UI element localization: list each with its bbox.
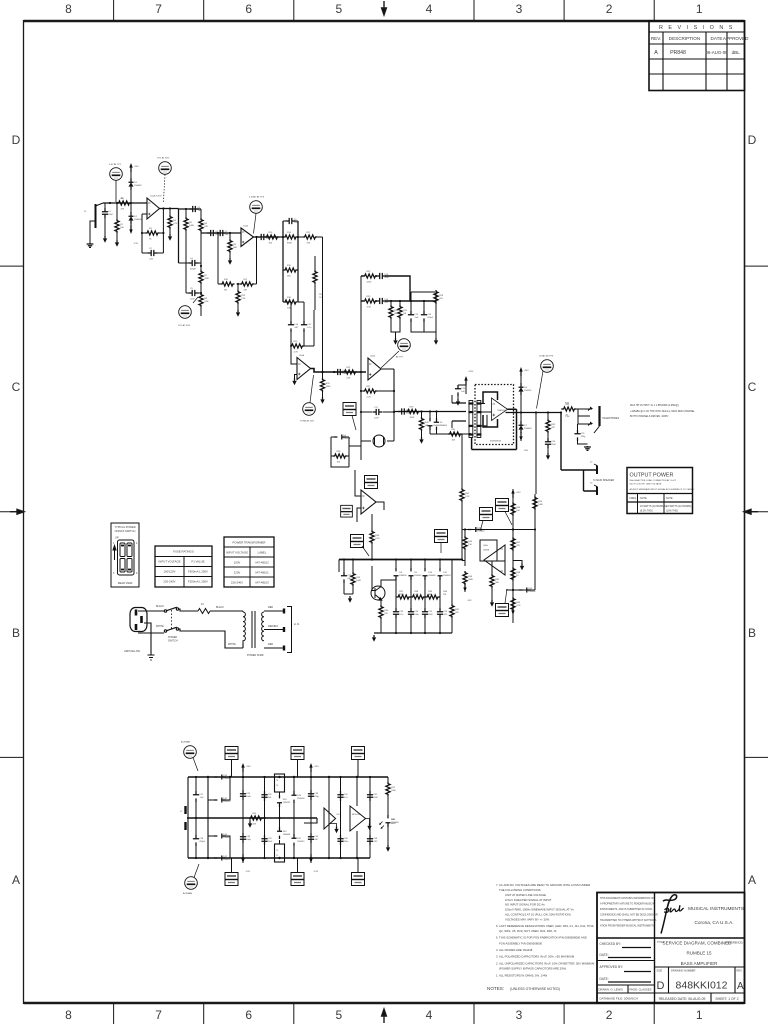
svg-text:120V: 120V xyxy=(234,571,241,575)
svg-text:A: A xyxy=(654,50,658,56)
feedback loop U1A wires xyxy=(142,209,163,254)
wire detector left xyxy=(462,560,465,562)
svg-text:3.3K: 3.3K xyxy=(367,306,372,308)
svg-text:U2-A: U2-A xyxy=(299,354,305,357)
PS labels row (regulator boxed labels) xyxy=(352,747,365,778)
svg-text:J3: J3 xyxy=(590,483,593,485)
cap rail C29 C30 xyxy=(340,777,342,858)
emitter resistor R37 xyxy=(379,600,383,634)
svg-text:15K: 15K xyxy=(269,242,273,244)
svg-text:J7: J7 xyxy=(180,811,183,813)
svg-text:22K: 22K xyxy=(204,226,208,228)
svg-text:C25: C25 xyxy=(428,611,433,613)
svg-text:4.7u: 4.7u xyxy=(399,614,404,616)
svg-text:ON/OFF SWITCH: ON/OFF SWITCH xyxy=(115,529,136,533)
tone stack right rail xyxy=(297,221,299,302)
+16V rail arrow xyxy=(241,763,244,772)
svg-text:330K: 330K xyxy=(468,579,473,581)
svg-text:TDA2030: TDA2030 xyxy=(497,409,506,412)
svg-text:R13: R13 xyxy=(269,232,274,234)
svg-text:(REFERENCE): (REFERENCE) xyxy=(725,941,743,945)
zone numbers top xyxy=(65,2,703,16)
resistor R20 to ground xyxy=(320,378,324,397)
svg-text:F1: F1 xyxy=(201,603,204,606)
svg-text:R26: R26 xyxy=(439,295,444,297)
svg-text:220-240V: 220-240V xyxy=(231,581,243,585)
svg-text:10K: 10K xyxy=(287,307,291,309)
svg-text:7. AC AND DC VOLTAGES ARE READ: 7. AC AND DC VOLTAGES ARE READ TO GROUND… xyxy=(496,883,590,887)
svg-text:R8: R8 xyxy=(204,298,208,300)
svg-text:To MAIN SPEAKER: To MAIN SPEAKER xyxy=(593,479,614,482)
svg-text:-15V: -15V xyxy=(134,243,139,245)
mid resistor divider R43 xyxy=(461,530,463,560)
resistor R48 xyxy=(511,537,515,551)
svg-text:3. ALL POLARIZED CAPACITORS IN: 3. ALL POLARIZED CAPACITORS IN uF, 20%, … xyxy=(496,955,575,959)
svg-text:D2: D2 xyxy=(134,216,138,218)
svg-text:R10: R10 xyxy=(224,279,229,281)
svg-text:MC/U2B: MC/U2B xyxy=(352,814,360,816)
svg-text:D20: D20 xyxy=(297,795,302,797)
supply arrow -15V xyxy=(463,583,466,592)
cap C22 xyxy=(193,818,199,858)
svg-text:LM358: LM358 xyxy=(483,550,490,552)
output wire U3A xyxy=(376,502,384,510)
transformer T1 xyxy=(243,611,284,648)
svg-text:R E V I S I O N S: R E V I S I O N S xyxy=(659,25,734,31)
svg-text:47K: 47K xyxy=(516,545,520,547)
svg-text:1N5242: 1N5242 xyxy=(223,801,231,803)
resistor R9 to ground xyxy=(228,233,232,258)
svg-text:D7: D7 xyxy=(524,425,528,427)
svg-text:J1: J1 xyxy=(84,211,87,213)
svg-text:1N4003: 1N4003 xyxy=(399,575,407,577)
label box +16V xyxy=(435,530,448,554)
feedback loop U1B wires xyxy=(218,233,257,284)
svg-text:1N5242: 1N5242 xyxy=(477,531,485,533)
resistor R1 series xyxy=(117,201,131,205)
test point TP6 xyxy=(537,360,554,409)
svg-text:APPROVED BY:: APPROVED BY: xyxy=(600,965,624,969)
wire neutral xyxy=(138,632,164,634)
svg-text:ATION FROM FENDER MUSICAL INST: ATION FROM FENDER MUSICAL INSTRUMENTS. xyxy=(600,925,655,928)
svg-text:1uF: 1uF xyxy=(225,234,229,236)
svg-text:R15: R15 xyxy=(287,265,292,267)
svg-text:2.2K: 2.2K xyxy=(367,396,372,398)
switch rocker drawing xyxy=(118,540,135,575)
resistor R36 xyxy=(344,560,355,595)
capacitor C7 series xyxy=(217,230,227,236)
svg-text:R5: R5 xyxy=(189,222,193,224)
slope resistor R18 xyxy=(313,256,317,310)
svg-text:R47: R47 xyxy=(516,542,521,544)
svg-text:SIZE: SIZE xyxy=(657,969,663,973)
svg-text:A: A xyxy=(748,873,756,887)
svg-text:10uF: 10uF xyxy=(374,417,379,419)
svg-text:15: 15 xyxy=(276,785,279,787)
cap rail C31 C32 xyxy=(369,777,371,858)
svg-text:1M: 1M xyxy=(403,313,406,315)
svg-text:A PROPRIETARY NATURE TO FENDER: A PROPRIETARY NATURE TO FENDER MUSICAL xyxy=(600,903,656,906)
resistor R32 xyxy=(448,432,462,436)
svg-text:220K: 220K xyxy=(204,278,209,280)
svg-text:330K: 330K xyxy=(410,417,415,419)
resistor R11 feedback xyxy=(240,282,254,286)
svg-text:CHECKED BY:: CHECKED BY: xyxy=(600,942,622,946)
svg-text:22K: 22K xyxy=(347,377,351,379)
svg-text:100K: 100K xyxy=(538,504,543,506)
svg-text:R36: R36 xyxy=(384,610,389,612)
svg-text:TRANSMITTED TO OTHERS WITHOUT: TRANSMITTED TO OTHERS WITHOUT AUTHORIZ- xyxy=(600,919,657,922)
zener ladder column 4 xyxy=(437,560,443,634)
svg-text:1N4003: 1N4003 xyxy=(443,575,451,577)
svg-text:68K: 68K xyxy=(428,594,432,596)
svg-text:R6: R6 xyxy=(204,223,208,225)
svg-text:ADJUST SINEWAVE INPUT SIGNAL A: ADJUST SINEWAVE INPUT SIGNAL AT 100MINIM… xyxy=(630,488,695,491)
buffer U8B large xyxy=(350,806,366,831)
svg-text:C31: C31 xyxy=(268,794,273,796)
svg-text:.022: .022 xyxy=(443,614,448,616)
zone tick marks top edge xyxy=(114,0,655,21)
resistor R4 to ground xyxy=(168,209,172,235)
svg-text:D: D xyxy=(748,133,757,147)
resistor R30 series xyxy=(406,409,420,413)
zone tick marks left edge xyxy=(0,266,24,757)
svg-text:RED: RED xyxy=(268,606,273,609)
clip diodes D4 D5 xyxy=(428,412,471,435)
svg-text:B: B xyxy=(12,626,20,640)
svg-text:VOL AT 50%: VOL AT 50% xyxy=(157,157,169,160)
title block frame xyxy=(597,893,745,1004)
resistor R5 xyxy=(184,209,188,263)
svg-text:BASS AMPLIFIER: BASS AMPLIFIER xyxy=(681,961,719,966)
bass pot R15 xyxy=(283,268,298,272)
svg-text:D: D xyxy=(12,133,21,147)
svg-text:R4: R4 xyxy=(173,220,177,222)
svg-text:R20: R20 xyxy=(326,383,331,385)
svg-text:R44: R44 xyxy=(468,576,473,578)
svg-text:D9: D9 xyxy=(414,572,418,574)
svg-text:8: 8 xyxy=(65,1008,72,1022)
volume pot R6 xyxy=(199,209,203,266)
resistor R51 xyxy=(533,496,537,510)
svg-text:R19: R19 xyxy=(294,341,299,343)
wire into U2A xyxy=(291,346,297,364)
svg-text:4.7K: 4.7K xyxy=(294,351,299,353)
ladder chain resistor R56 xyxy=(411,595,425,599)
amp output wire xyxy=(506,412,562,414)
main wire U2A out xyxy=(311,369,367,373)
resistor R2 input shunt xyxy=(115,203,119,240)
svg-text:15K: 15K xyxy=(337,461,341,463)
svg-text:C16: C16 xyxy=(427,314,432,316)
svg-text:6: 6 xyxy=(136,572,138,575)
svg-text:DATE:: DATE: xyxy=(600,977,609,981)
svg-text:SWITCH: SWITCH xyxy=(168,640,178,643)
svg-text:C36: C36 xyxy=(344,838,349,840)
zone numbers bottom xyxy=(65,1008,703,1022)
wire TP1 to input node xyxy=(115,181,117,203)
svg-text:10K: 10K xyxy=(452,439,456,441)
zone letters right xyxy=(748,133,757,887)
ground stub detector xyxy=(513,561,522,564)
detector top wire xyxy=(462,529,535,531)
svg-text:R21: R21 xyxy=(347,367,352,369)
svg-text:RUMBLE 15: RUMBLE 15 xyxy=(686,951,712,956)
svg-text:22K: 22K xyxy=(384,613,388,615)
svg-text:A: A xyxy=(737,981,744,992)
svg-text:R49: R49 xyxy=(516,602,521,604)
svg-text:3: 3 xyxy=(516,1008,523,1022)
centering arrow right xyxy=(744,509,758,514)
clamp diode D16 xyxy=(292,777,297,818)
svg-text:R28: R28 xyxy=(337,451,342,453)
svg-text:R46: R46 xyxy=(516,507,521,509)
svg-text:DRAWN: G. LEWIS: DRAWN: G. LEWIS xyxy=(599,988,624,992)
connector ref circle P3 xyxy=(184,746,198,771)
svg-text:C24: C24 xyxy=(414,611,419,613)
svg-text:U4-A: U4-A xyxy=(483,544,488,547)
svg-text:47nF: 47nF xyxy=(384,277,389,279)
svg-text:R3: R3 xyxy=(149,228,153,230)
svg-text:C10: C10 xyxy=(294,324,299,326)
bypass rail vertical xyxy=(242,771,244,863)
svg-text:4: 4 xyxy=(426,1008,433,1022)
svg-text:U2-B: U2-B xyxy=(370,356,376,358)
svg-text:4.7K: 4.7K xyxy=(516,605,521,607)
diode D7 xyxy=(519,421,524,433)
speaker feed down xyxy=(561,413,597,471)
svg-text:F1 VALUE: F1 VALUE xyxy=(191,560,204,564)
svg-text:1N4448: 1N4448 xyxy=(391,822,399,824)
svg-text:DATABASE FILE: 2060/SCH: DATABASE FILE: 2060/SCH xyxy=(600,997,638,1001)
svg-text:100mV RMS, 100Hz SINEWAVE INPU: 100mV RMS, 100Hz SINEWAVE INPUT SIGNAL A… xyxy=(505,908,574,912)
svg-text:R24: R24 xyxy=(394,310,399,312)
svg-text:+26V: +26V xyxy=(468,371,474,373)
label box bottom left PS xyxy=(225,858,238,886)
wire hot xyxy=(138,610,164,612)
svg-text:INSTRUMENTS, AND IS SUBMITTED: INSTRUMENTS, AND IS SUBMITTED IN CONFI- xyxy=(600,908,653,911)
svg-text:.022: .022 xyxy=(384,302,389,304)
pass transistor Q1 MPSA06 xyxy=(371,566,396,600)
svg-text:DATE:: DATE: xyxy=(600,953,609,957)
diode D13 bottom rail series xyxy=(214,856,226,861)
capacitor C1 xyxy=(102,203,108,236)
svg-text:100n: 100n xyxy=(344,841,349,843)
svg-text:.022: .022 xyxy=(373,841,378,843)
bias rail vertical xyxy=(371,514,373,530)
svg-text:1: 1 xyxy=(696,2,703,16)
threshold rail x513 xyxy=(512,489,514,623)
svg-text:1N5242: 1N5242 xyxy=(297,841,305,843)
svg-text:POWER TRANSFORMER: POWER TRANSFORMER xyxy=(233,541,266,545)
ground stub center xyxy=(249,818,251,821)
svg-text:7: 7 xyxy=(155,2,162,16)
ground stub U2A xyxy=(295,375,298,379)
diode D6 xyxy=(520,375,522,383)
label box U3A xyxy=(365,476,378,489)
svg-text:4.7K: 4.7K xyxy=(173,223,178,225)
svg-text:R14: R14 xyxy=(287,232,292,234)
cap C21 xyxy=(193,777,199,818)
svg-text:5: 5 xyxy=(335,1008,342,1022)
svg-text:NO INPUT SIGNAL FOR DC As: NO INPUT SIGNAL FOR DC As xyxy=(505,903,545,907)
second row resistor R23 xyxy=(361,298,436,304)
svg-text:R42: R42 xyxy=(465,493,470,495)
svg-text:100p: 100p xyxy=(246,839,251,841)
left rail verticals xyxy=(187,777,189,858)
resistor R3 feedback xyxy=(142,231,163,235)
svg-text:D8: D8 xyxy=(399,572,403,574)
supply rail -26V arrow xyxy=(519,432,522,441)
output wire U1A xyxy=(160,208,179,210)
speaker return wire xyxy=(584,470,598,491)
svg-text:R34: R34 xyxy=(375,535,380,537)
svg-text:15 WATTS (10.95VRMS): 15 WATTS (10.95VRMS) xyxy=(640,505,667,508)
svg-text:U1-B: U1-B xyxy=(243,226,249,228)
svg-text:NOTES:: NOTES: xyxy=(487,986,504,991)
svg-text:6. LAST REFERENCE DESIGNATORS: 6. LAST REFERENCE DESIGNATORS USED: (LED… xyxy=(496,924,594,928)
svg-text:56K: 56K xyxy=(287,275,291,277)
svg-text:FGN ASSEMBLY P/N 0069508000: FGN ASSEMBLY P/N 0069508000 xyxy=(499,942,543,946)
typical power on/off switch box xyxy=(111,523,139,587)
switch up arrow xyxy=(113,546,116,561)
svg-text:1: 1 xyxy=(696,1008,703,1022)
svg-text:+105dBA @ 0.1% THD INTO 32ohms: +105dBA @ 0.1% THD INTO 32ohms, MILD PER… xyxy=(630,410,695,413)
svg-text:C30: C30 xyxy=(246,836,251,838)
label box D8 xyxy=(480,508,493,529)
svg-text:C38: C38 xyxy=(373,838,378,840)
component reference labels xyxy=(108,182,586,861)
svg-text:FREQ.: FREQ. xyxy=(630,497,638,500)
svg-text:.1uF: .1uF xyxy=(199,797,204,799)
svg-text:R50: R50 xyxy=(538,501,543,503)
svg-text:R31: R31 xyxy=(452,429,457,431)
svg-text:PR848: PR848 xyxy=(670,50,686,56)
svg-text:470: 470 xyxy=(455,612,459,614)
probe line TP3 xyxy=(254,214,257,234)
svg-text:2. ALL UNPOLARIZED CAPACITORS: 2. ALL UNPOLARIZED CAPACITORS IN uF, 10%… xyxy=(496,962,595,966)
svg-text:AC/MAIN: AC/MAIN xyxy=(181,741,191,744)
test point TP5 xyxy=(303,375,316,415)
svg-text:4.5VAC AT TP3: 4.5VAC AT TP3 xyxy=(249,196,265,199)
svg-text:15K: 15K xyxy=(468,544,472,546)
svg-text:100V: 100V xyxy=(234,561,241,565)
svg-text:DRAWING NUMBER: DRAWING NUMBER xyxy=(671,969,696,973)
svg-text:D21: D21 xyxy=(297,838,302,840)
svg-text:1. ALL RESISTORS IN OHMS, 5%,: 1. ALL RESISTORS IN OHMS, 5%, 1/4W xyxy=(496,974,547,978)
svg-text:R48: R48 xyxy=(516,572,521,574)
bypass rail vertical 2 xyxy=(310,771,312,863)
svg-text:1M: 1M xyxy=(224,289,227,291)
svg-text:RED: RED xyxy=(268,643,273,646)
svg-text:ALL CONTROLS AT 10 (FULL CW, 5: ALL CONTROLS AT 10 (FULL CW, 50% ROTATIO… xyxy=(505,913,571,917)
center tap jog xyxy=(304,818,317,823)
output wire U2B xyxy=(381,369,394,412)
centering arrow bottom xyxy=(382,1009,387,1023)
svg-text:C37: C37 xyxy=(373,794,378,796)
resistor R54 LED xyxy=(386,782,390,815)
svg-text:1N5242: 1N5242 xyxy=(524,390,532,392)
zobel resistor R33 xyxy=(546,413,550,439)
svg-text:C21: C21 xyxy=(581,433,586,435)
svg-text:RED/BLK: RED/BLK xyxy=(268,625,279,628)
svg-text:TONE AT 50%: TONE AT 50% xyxy=(300,420,314,423)
svg-text:BLACK: BLACK xyxy=(156,605,164,608)
switch dashed link xyxy=(171,610,173,629)
svg-text:R12: R12 xyxy=(241,295,246,297)
svg-text:POWER XFMR: POWER XFMR xyxy=(247,654,264,657)
svg-text:0.5mV INJECTED SIGNAL AT INPUT: 0.5mV INJECTED SIGNAL AT INPUT xyxy=(505,898,552,902)
capacitor C8 series xyxy=(258,234,268,240)
buffer U8A xyxy=(324,808,336,829)
capacitor C5 xyxy=(186,263,201,296)
svg-text:3: 3 xyxy=(113,572,115,575)
svg-text:PAGE: CLASSES: PAGE: CLASSES xyxy=(630,988,652,992)
svg-text:8: 8 xyxy=(65,2,72,16)
svg-text:R45: R45 xyxy=(495,579,500,581)
svg-text:C33: C33 xyxy=(314,793,319,795)
buffer rail vertical xyxy=(328,777,330,858)
svg-text:R51: R51 xyxy=(253,813,258,815)
resistor R35 xyxy=(370,530,374,559)
svg-text:R37: R37 xyxy=(399,591,404,593)
svg-text:47K: 47K xyxy=(307,242,311,244)
svg-text:220K: 220K xyxy=(391,790,396,792)
svg-text:220K: 220K xyxy=(367,281,372,283)
rail arrow -15V xyxy=(129,225,132,234)
diode D8 xyxy=(468,527,480,532)
svg-text:470pF: 470pF xyxy=(199,841,206,843)
svg-text:R35: R35 xyxy=(356,577,361,579)
svg-text:1N4003: 1N4003 xyxy=(223,859,231,861)
+15V rail arrow 2 xyxy=(309,763,312,772)
svg-text:5. THIS SCHEMATIC IS FOR FGN F: 5. THIS SCHEMATIC IS FOR FGN FABRICATION… xyxy=(496,936,587,940)
svg-text:R1: R1 xyxy=(120,224,124,226)
svg-text:REAR VIEW: REAR VIEW xyxy=(118,581,133,585)
svg-text:22uF: 22uF xyxy=(551,444,556,446)
svg-text:22K: 22K xyxy=(253,823,257,825)
svg-text:C27: C27 xyxy=(199,794,204,796)
bottom supply rail xyxy=(188,857,370,859)
ground flag headphone xyxy=(584,446,591,450)
pin header columns P2 xyxy=(469,401,481,438)
svg-text:3: 3 xyxy=(516,2,523,16)
svg-text:With REACTIVE LOAD CONNECTED A: With REACTIVE LOAD CONNECTED AT Vs-P1 xyxy=(630,479,677,482)
svg-text:4: 4 xyxy=(136,542,138,545)
-15V rail arrow 2 xyxy=(309,854,312,863)
svg-text:C: C xyxy=(12,380,21,394)
zone tick marks bottom edge xyxy=(114,1003,655,1024)
LED ground arrow xyxy=(386,845,390,852)
svg-text:2.2K: 2.2K xyxy=(465,496,470,498)
svg-text:848KKI012: 848KKI012 xyxy=(676,980,728,992)
svg-text:C26: C26 xyxy=(443,611,448,613)
svg-text:11VAC AT TP6: 11VAC AT TP6 xyxy=(539,355,554,358)
svg-text:R41: R41 xyxy=(455,609,460,611)
svg-text:(UNLESS OTHERWISE NOTED): (UNLESS OTHERWISE NOTED) xyxy=(510,987,560,991)
fuse F1 xyxy=(198,609,210,614)
svg-text:C35: C35 xyxy=(344,794,349,796)
svg-text:THE FOLLOWING CONDITIONS:: THE FOLLOWING CONDITIONS: xyxy=(499,888,541,892)
svg-text:R11: R11 xyxy=(244,279,249,281)
svg-text:(8.2% THD): (8.2% THD) xyxy=(640,510,653,513)
svg-text:DESCRIPTION: DESCRIPTION xyxy=(669,36,700,41)
speaker jack J3 xyxy=(596,487,598,496)
LED branch xyxy=(387,777,389,782)
resistor R8 xyxy=(199,289,203,316)
svg-text:4.7K: 4.7K xyxy=(375,538,380,540)
svg-text:+26V: +26V xyxy=(524,370,530,372)
